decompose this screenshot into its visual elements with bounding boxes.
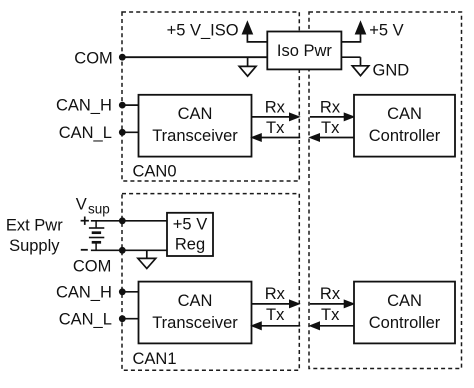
svg-text:Tx: Tx <box>321 119 340 137</box>
svg-text:Controller: Controller <box>369 127 441 145</box>
label Ext Pwr Supply source <box>6 217 63 255</box>
svg-text:Ext Pwr: Ext Pwr <box>6 217 63 235</box>
wire Tx from isolation barrier to transceiver <box>252 134 301 142</box>
wire Rx from transceiver U5 to isolation barrier <box>252 300 300 308</box>
svg-text:Rx: Rx <box>320 98 341 116</box>
node CAN_H (CAN0 pin) <box>119 102 126 109</box>
wire Tx from controller U6 to barrier <box>310 322 354 330</box>
node CAN_L (CAN1 pin) <box>119 315 126 322</box>
svg-text:V: V <box>76 195 87 213</box>
transceiver U5 CAN Transceiver (CAN1) <box>139 282 252 344</box>
node COM (CAN1 pin) <box>119 247 126 254</box>
svg-text:+5 V_ISO: +5 V_ISO <box>167 21 239 39</box>
svg-text:Rx: Rx <box>265 98 286 116</box>
node COM (CAN0 connector pin) <box>119 54 126 61</box>
svg-text:Iso Pwr: Iso Pwr <box>277 42 333 60</box>
svg-text:CAN: CAN <box>178 292 213 310</box>
svg-text:CAN: CAN <box>387 292 422 310</box>
svg-text:CAN0: CAN0 <box>133 163 177 181</box>
wire Tx from isolation barrier to transceiver U5 <box>252 322 301 330</box>
wire CAN_L to transceiver U5 <box>122 318 139 320</box>
battery BT1 plus sign <box>81 217 89 225</box>
svg-text:CAN: CAN <box>387 105 422 123</box>
svg-text:Rx: Rx <box>320 285 341 303</box>
svg-text:Transceiver: Transceiver <box>152 314 238 332</box>
svg-text:sup: sup <box>88 202 110 217</box>
wire Rx from barrier into controller U6 <box>310 300 354 308</box>
svg-text:Tx: Tx <box>321 306 340 324</box>
wire CAN_H to transceiver U5 <box>122 291 139 293</box>
battery BT1 cells <box>89 221 104 251</box>
wire Iso Pwr to GND <box>341 56 360 58</box>
ground symbol (CAN1 common) <box>138 250 156 268</box>
wire CAN_L to transceiver U2 <box>122 131 139 133</box>
wire Tx from controller U3 to barrier <box>310 134 354 142</box>
controller-side dashed enclosure <box>309 12 462 369</box>
svg-text:CAN1: CAN1 <box>133 350 177 368</box>
isolated side dashed enclosure CAN1 <box>122 194 299 371</box>
ground symbol (isolated side) <box>239 57 256 76</box>
wire COM (bottom) to +5 V Reg <box>91 249 167 251</box>
controller U3 CAN Controller (CAN0) <box>354 95 455 157</box>
svg-text:Rx: Rx <box>265 285 286 303</box>
wire COM to Iso Pwr <box>122 56 267 58</box>
regulator U4 +5 V Reg <box>167 213 213 256</box>
svg-text:+5 V: +5 V <box>173 215 207 233</box>
svg-text:CAN_H: CAN_H <box>56 97 112 115</box>
svg-text:COM: COM <box>74 49 113 67</box>
transceiver U2 CAN Transceiver (CAN0) <box>139 95 252 157</box>
svg-text:CAN_L: CAN_L <box>59 124 112 142</box>
wire CAN_H to transceiver U2 <box>122 104 139 106</box>
ground symbol GND (controller side) <box>352 57 369 75</box>
svg-text:CAN: CAN <box>178 105 213 123</box>
+5 V_ISO supply arrow <box>242 22 267 42</box>
svg-text:CAN_H: CAN_H <box>56 283 112 301</box>
battery BT1 minus sign <box>81 249 88 251</box>
label V_sup net <box>76 195 110 216</box>
controller U6 CAN Controller (CAN1) <box>354 282 455 344</box>
wire Rx from barrier into controller U3 <box>310 113 354 121</box>
node V_sup (CAN1 pin) <box>119 217 126 224</box>
isolated side dashed enclosure CAN0 <box>122 12 299 181</box>
wire V_sup to +5 V Reg <box>91 220 167 222</box>
svg-text:Controller: Controller <box>369 314 441 332</box>
svg-text:Supply: Supply <box>9 237 60 255</box>
svg-text:Transceiver: Transceiver <box>152 127 238 145</box>
+5 V supply arrow <box>341 22 365 42</box>
node CAN_L (CAN0 pin) <box>119 129 126 136</box>
wire Rx from transceiver to isolation barrier <box>252 113 300 121</box>
svg-text:CAN_L: CAN_L <box>59 310 112 328</box>
svg-text:COM: COM <box>73 257 112 275</box>
svg-text:Tx: Tx <box>266 119 285 137</box>
node CAN_H (CAN1 pin) <box>119 288 126 295</box>
svg-text:Reg: Reg <box>175 236 205 254</box>
svg-text:+5 V: +5 V <box>369 22 403 40</box>
svg-text:GND: GND <box>373 61 410 79</box>
power module U1 Iso Pwr <box>267 32 341 70</box>
svg-text:Tx: Tx <box>266 306 285 324</box>
